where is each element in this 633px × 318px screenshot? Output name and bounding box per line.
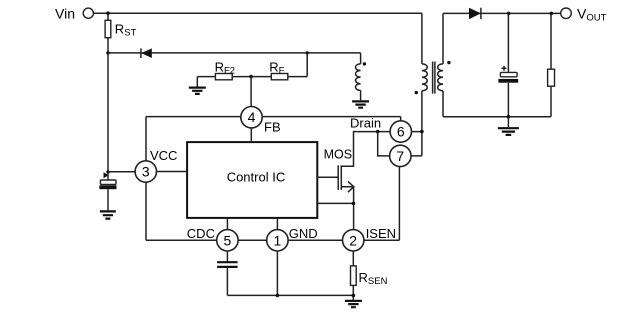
svg-text:3: 3 [142, 164, 150, 180]
junction output cap node [507, 12, 511, 16]
wire RST top lead [107, 13, 109, 20]
ground below RSEN [345, 301, 362, 307]
pin 7 circle [390, 145, 411, 166]
svg-text:5: 5 [224, 232, 232, 248]
resistor Rload [548, 69, 555, 86]
pin 5 circle [217, 230, 238, 251]
wire aux winding bottom lead [360, 90, 362, 100]
pin 6 circle [390, 121, 411, 142]
junction at RF branch [306, 51, 309, 54]
transformer secondary polarity dot [447, 61, 450, 64]
wire drain node to pin 7 [378, 132, 390, 156]
junction FB divider node [249, 75, 253, 79]
wire pin1 stub [276, 218, 278, 230]
aux winding polarity dot [363, 62, 366, 65]
capacitor Cout plus sign [502, 66, 507, 71]
wire aux winding top lead [360, 53, 362, 64]
pin 2 circle [343, 230, 364, 251]
svg-text:2: 2 [349, 232, 357, 248]
svg-text:Vin: Vin [55, 6, 75, 22]
svg-text:1: 1 [274, 232, 282, 248]
capacitor Cout bottom plate [498, 79, 518, 83]
wire RF2 right lead [232, 76, 251, 78]
wire FB node to pin 4 [250, 77, 252, 107]
wire CDC cap top lead [226, 251, 228, 263]
capacitor Cvcc top plate [100, 180, 116, 184]
wire MOS source lead [341, 187, 353, 230]
terminal Vout [561, 8, 572, 19]
svg-text:CDC: CDC [187, 226, 215, 241]
junction VCC node [106, 170, 110, 174]
svg-text:VCC: VCC [150, 148, 177, 163]
wire pin2 to RSEN [352, 251, 354, 266]
transformer core [433, 62, 435, 94]
wire VCC cap top lead [107, 172, 109, 180]
wire secondary bottom lead [442, 91, 444, 117]
wire load resistor bottom lead [550, 86, 552, 117]
wire RF left lead [251, 76, 271, 78]
VCC node marker triangle [104, 172, 109, 178]
transformer primary polarity dot [415, 91, 418, 94]
transformer secondary winding [438, 64, 443, 91]
svg-text:Control IC: Control IC [227, 169, 286, 184]
resistor RST [105, 20, 111, 37]
capacitor Cout top plate [500, 72, 517, 76]
wire VCC column [107, 53, 109, 172]
diode D2 output rectifier [469, 8, 481, 19]
wire RF2 ground stub [196, 77, 198, 87]
wire RSEN bottom lead [352, 285, 354, 300]
terminal Vin [83, 8, 93, 18]
wire primary bottom lead to pins 6 7 [411, 91, 422, 156]
package outline [146, 117, 401, 241]
junction source stub [352, 202, 356, 206]
wire feedback rail [108, 52, 361, 54]
junction pin1 bottom [276, 294, 280, 298]
svg-text:6: 6 [397, 124, 405, 140]
wire RF2 left lead [197, 76, 215, 78]
wire output top rail [443, 12, 561, 14]
wire output ground stub [507, 117, 509, 127]
resistor RF2 [215, 74, 232, 80]
wire VCC cap bottom lead [107, 189, 109, 210]
pin 3 circle [135, 161, 156, 182]
svg-text:7: 7 [396, 148, 404, 164]
wire pin5 stub [226, 218, 228, 230]
wire pin3 to inner box [156, 171, 187, 173]
ground below RF2 [189, 88, 206, 94]
svg-text:ISEN: ISEN [366, 226, 396, 241]
wire VCC node to pin 3 [108, 171, 136, 173]
wire output cap bottom lead [507, 83, 509, 117]
wire gate lead [317, 176, 337, 178]
wire load resistor top lead [550, 13, 552, 69]
capacitor Cvcc bottom plate [99, 185, 116, 189]
junction at feedback rail [106, 51, 110, 55]
diode D1 feedback [140, 48, 142, 58]
wire MOS drain lead [341, 132, 390, 167]
transistor MOS channel bar [340, 165, 342, 190]
resistor RF [271, 74, 288, 80]
wire CDC cap bottom lead [226, 267, 228, 296]
wire inner box to source junction [317, 202, 353, 204]
capacitor CDC [217, 262, 238, 267]
ground below VCC cap [100, 211, 116, 218]
transistor MOS gate bar [337, 165, 339, 190]
junction output ground node [507, 115, 511, 119]
svg-text:4: 4 [248, 109, 256, 125]
ground below output cap [498, 128, 519, 135]
junction at pin6 right [420, 130, 424, 134]
transformer primary winding [422, 64, 427, 91]
pin 4 circle [241, 107, 262, 128]
pin 1 circle [267, 230, 288, 251]
wire RF right lead [288, 76, 307, 78]
wire bottom rail [227, 294, 353, 296]
wire pin1 bottom lead [276, 251, 278, 296]
junction drain node [376, 130, 380, 134]
wire secondary top lead [442, 13, 444, 64]
wire RST bottom lead [107, 38, 109, 53]
wire output bottom rail [443, 116, 551, 118]
svg-text:FB: FB [264, 120, 281, 135]
inner box Control IC [187, 142, 317, 218]
wire pin4 stub to inner box [250, 128, 252, 142]
ground below aux winding [352, 101, 369, 107]
resistor RSEN [351, 266, 357, 286]
wire Vin rail to transformer primary top [94, 12, 422, 14]
junction load node [550, 12, 554, 16]
svg-text:GND: GND [289, 226, 318, 241]
svg-text:MOS: MOS [324, 147, 352, 161]
aux winding La [356, 64, 361, 91]
transformer primary top lead [421, 13, 423, 64]
wire output cap top lead [507, 13, 509, 72]
wire RF branch down [306, 53, 308, 77]
junction RSEN ground node [352, 294, 356, 298]
junction at RST top [106, 11, 110, 15]
svg-text:Drain: Drain [350, 116, 381, 131]
MOS source arrow [348, 181, 354, 192]
